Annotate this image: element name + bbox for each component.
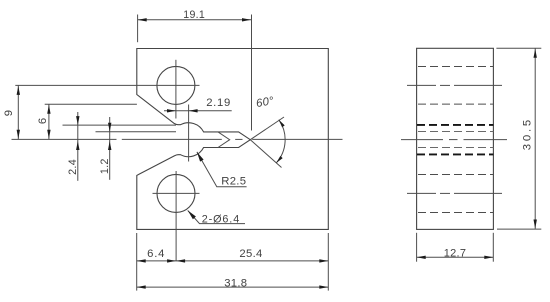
svg-text:6.4: 6.4 xyxy=(147,248,165,260)
svg-text:30.5: 30.5 xyxy=(521,117,533,150)
svg-text:2.4: 2.4 xyxy=(67,159,79,175)
svg-text:1.2: 1.2 xyxy=(99,158,111,174)
svg-text:19.1: 19.1 xyxy=(183,9,205,21)
svg-text:25.4: 25.4 xyxy=(239,248,262,260)
svg-text:2-Ø6.4: 2-Ø6.4 xyxy=(202,214,240,226)
svg-text:6: 6 xyxy=(37,118,49,125)
svg-text:R2.5: R2.5 xyxy=(221,175,246,187)
svg-text:9: 9 xyxy=(3,110,15,117)
svg-text:12.7: 12.7 xyxy=(444,247,467,259)
svg-text:2.19: 2.19 xyxy=(206,97,231,109)
svg-text:31.8: 31.8 xyxy=(224,277,247,289)
